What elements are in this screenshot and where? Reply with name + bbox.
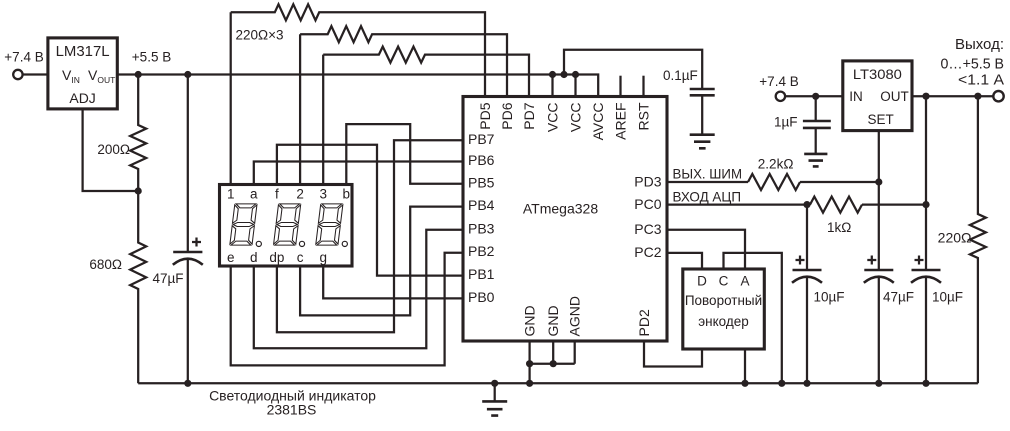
node rail-200R	[135, 71, 142, 78]
wire digit3 common	[322, 55, 324, 185]
node encoder gnd rail	[741, 380, 748, 387]
+5.5V rail	[117, 75, 598, 97]
capacitor C2 47uF	[864, 269, 893, 272]
wire resistor to SET node	[800, 181, 879, 183]
wire encoder C to ground	[724, 253, 782, 383]
svg-text:OUT: OUT	[880, 89, 909, 104]
svg-text:PB1: PB1	[468, 266, 495, 282]
svg-text:IN: IN	[849, 89, 863, 104]
wire ADJ pin	[83, 109, 139, 191]
node out 220R	[974, 93, 981, 100]
svg-text:AVCC: AVCC	[590, 103, 606, 141]
capacitor C 47uF left	[187, 75, 189, 253]
svg-text:e: e	[227, 250, 235, 265]
svg-text:GND: GND	[545, 305, 561, 336]
svg-text:SET: SET	[867, 112, 893, 127]
svg-text:47µF: 47µF	[153, 271, 184, 286]
node 47uF-gnd	[184, 380, 191, 387]
svg-text:2: 2	[296, 187, 304, 202]
resistor R 1k	[810, 197, 862, 213]
ground symbol under 0.1uF	[690, 135, 715, 149]
node out column	[922, 93, 929, 100]
svg-text:47µF: 47µF	[883, 290, 914, 305]
node SET junction	[875, 178, 882, 185]
node 1uF tap	[812, 93, 819, 100]
resistor R 220R right	[970, 96, 986, 383]
svg-text:f: f	[275, 187, 279, 202]
wire segment e to PB2	[231, 253, 463, 366]
svg-text:680Ω: 680Ω	[89, 257, 122, 272]
svg-text:<1.1 А: <1.1 А	[958, 72, 1004, 89]
node ADC cap1	[803, 201, 810, 208]
wire SET down	[878, 131, 880, 270]
node gnd symbol rail	[491, 380, 498, 387]
svg-text:A: A	[740, 274, 749, 289]
svg-text:+7.4 В: +7.4 В	[4, 50, 43, 65]
wire VCC1	[551, 75, 553, 97]
node GND join 2	[550, 360, 557, 367]
svg-text:g: g	[319, 250, 327, 265]
resistor R 680R	[130, 191, 146, 383]
svg-text:2381BS: 2381BS	[267, 402, 317, 418]
svg-text:VCC: VCC	[567, 103, 583, 133]
resistor R1 220R top	[231, 4, 485, 96]
svg-text:PB0: PB0	[468, 289, 495, 305]
svg-text:PB7: PB7	[468, 131, 495, 147]
7seg digit 3	[316, 204, 343, 245]
wire digit2 common	[299, 34, 301, 184]
svg-text:PD2: PD2	[636, 309, 652, 336]
wire input to LM317	[23, 73, 48, 75]
svg-text:1: 1	[227, 187, 235, 202]
svg-text:PB6: PB6	[468, 152, 495, 168]
pin stub AREF	[619, 76, 621, 97]
svg-text:AREF: AREF	[612, 103, 628, 140]
svg-text:LT3080: LT3080	[853, 66, 902, 82]
svg-text:RST: RST	[635, 102, 651, 130]
wire segment d to PB3	[254, 230, 463, 348]
svg-text:0.1µF: 0.1µF	[663, 68, 698, 83]
svg-text:LM317L: LM317L	[56, 43, 110, 60]
svg-text:ВХОД АЦП: ВХОД АЦП	[673, 188, 742, 204]
wire GND pins join	[530, 341, 575, 383]
svg-text:10µF: 10µF	[932, 290, 963, 305]
svg-text:PD6: PD6	[499, 102, 515, 129]
wire tap to 0.1uF	[564, 50, 702, 89]
node rail-47uF	[184, 71, 191, 78]
resistor R 2.2k	[748, 174, 800, 190]
svg-text:PC0: PC0	[634, 196, 661, 212]
wire to LT3080	[786, 95, 843, 97]
svg-text:1µF: 1µF	[774, 115, 798, 130]
resistor R 200R	[130, 75, 146, 192]
7seg digit 1	[230, 204, 257, 245]
svg-text:ВЫХ. ШИМ: ВЫХ. ШИМ	[673, 166, 743, 182]
svg-text:1kΩ: 1kΩ	[827, 220, 851, 235]
decimal point 1	[256, 241, 261, 246]
capacitor C 0.1uF	[690, 89, 715, 95]
node ADC out column	[922, 201, 929, 208]
resistor R2 220R	[300, 26, 507, 96]
wire digit1 common	[230, 12, 232, 184]
wire segment dp to PB7	[277, 140, 463, 332]
svg-text:VCC: VCC	[544, 103, 560, 133]
svg-text:b: b	[343, 187, 351, 202]
capacitor C 1uF	[815, 96, 817, 121]
MCU U2 ATmega328	[463, 97, 667, 342]
svg-text:AGND: AGND	[567, 296, 583, 336]
wire VCC2	[574, 75, 576, 97]
svg-text:200Ω: 200Ω	[97, 142, 130, 157]
input terminal +7.4V left	[13, 70, 22, 79]
svg-text:C: C	[719, 274, 729, 289]
wire segment c to PB4	[300, 207, 463, 316]
wire segment g to PB0	[323, 266, 463, 298]
wire PC2 to encoder D	[667, 253, 702, 269]
svg-text:220Ω×3: 220Ω×3	[236, 28, 284, 43]
svg-text:c: c	[297, 250, 304, 265]
svg-text:+5.5 В: +5.5 В	[132, 50, 171, 65]
svg-text:PB2: PB2	[468, 243, 495, 259]
svg-text:220Ω: 220Ω	[938, 230, 972, 246]
7seg digit 2	[273, 204, 300, 245]
input terminal +7.4V right	[776, 92, 785, 101]
ground symbol under 1uF	[804, 154, 827, 167]
decimal point 3	[342, 241, 347, 246]
node 0.1uF tap	[560, 71, 567, 78]
svg-text:PC3: PC3	[634, 221, 661, 237]
ground symbol main	[494, 383, 496, 401]
wire resistor to out column	[862, 203, 926, 205]
svg-text:энкодер: энкодер	[698, 314, 749, 329]
svg-text:VIN: VIN	[62, 67, 80, 85]
wire PD3 PWM out	[667, 181, 748, 183]
node ADJ junction	[135, 187, 142, 194]
node GND join 1	[526, 360, 533, 367]
capacitor C1 10uF	[793, 269, 822, 272]
wire segment a to PB6	[254, 162, 463, 185]
capacitor C3 10uF	[912, 269, 941, 272]
wire 0.1uF to ground	[701, 95, 703, 134]
wire segment b to PB5	[346, 124, 463, 184]
wire PC3 to encoder A	[667, 230, 745, 269]
node VCC2	[572, 71, 579, 78]
svg-text:Выход:: Выход:	[955, 36, 1004, 53]
ground rail bottom	[138, 382, 978, 384]
svg-text:PB3: PB3	[468, 220, 495, 236]
wire segment f to PB1	[277, 145, 463, 276]
node cap1 rail	[803, 380, 810, 387]
svg-text:+7.4 В: +7.4 В	[759, 74, 798, 89]
wire out column down	[925, 96, 927, 269]
svg-text:GND: GND	[521, 305, 537, 336]
svg-text:2.2kΩ: 2.2kΩ	[758, 157, 794, 172]
svg-text:a: a	[250, 187, 258, 202]
decimal point 2	[299, 241, 304, 246]
node cap3 rail	[922, 380, 929, 387]
svg-text:3: 3	[319, 187, 327, 202]
node C gnd rail	[778, 380, 785, 387]
svg-text:Поворотный: Поворотный	[685, 293, 762, 308]
svg-text:10µF: 10µF	[814, 290, 845, 305]
svg-text:dp: dp	[269, 250, 284, 265]
wire PD2 to encoder	[644, 341, 702, 367]
wire encoder to ground rail	[744, 349, 746, 383]
svg-text:ATmega328: ATmega328	[523, 201, 598, 217]
svg-text:PC2: PC2	[634, 244, 661, 260]
wire OUT rail	[912, 95, 993, 97]
svg-text:VOUT: VOUT	[88, 67, 115, 85]
svg-text:0…+5.5 В: 0…+5.5 В	[941, 56, 1005, 73]
svg-text:PD3: PD3	[634, 174, 661, 190]
svg-text:d: d	[250, 250, 258, 265]
wire PC0 ADC in	[667, 203, 810, 205]
regulator U3 LT3080	[843, 61, 912, 131]
output terminal	[993, 91, 1003, 101]
pin stub RST	[642, 76, 644, 97]
svg-text:PB4: PB4	[468, 197, 495, 213]
rotary encoder box	[683, 269, 765, 349]
LED display box 2381BS	[220, 185, 353, 267]
regulator U1 LM317L	[48, 38, 117, 109]
svg-text:PD7: PD7	[521, 102, 537, 129]
svg-text:PB5: PB5	[468, 174, 495, 190]
resistor R3 220R	[323, 47, 529, 97]
node VCC1	[549, 71, 556, 78]
svg-text:ADJ: ADJ	[69, 90, 95, 106]
node cap2 rail	[875, 380, 882, 387]
node GND rail	[526, 380, 533, 387]
svg-text:D: D	[697, 274, 707, 289]
svg-text:PD5: PD5	[477, 102, 493, 129]
